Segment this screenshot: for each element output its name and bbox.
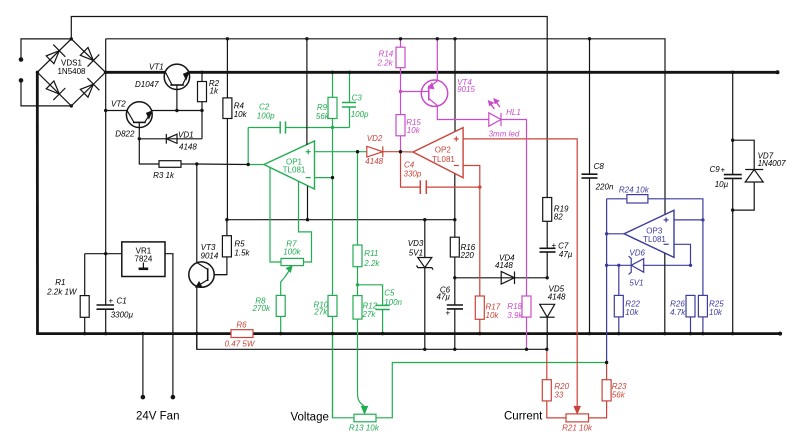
wire OP2 +input to current pot (463, 139, 577, 408)
capacitor C9 (724, 72, 742, 333)
resistor R4 (223, 39, 232, 220)
resistor R8 (276, 278, 285, 334)
wire R9 R10 column (332, 128, 334, 296)
svg-text:100p: 100p (351, 110, 369, 119)
svg-text:D1047: D1047 (135, 80, 159, 89)
wire R12 to R13 wiper (358, 394, 365, 408)
svg-text:10k: 10k (625, 308, 639, 317)
wire OP2 -input (463, 166, 480, 188)
svg-text:56k: 56k (612, 391, 626, 400)
svg-text:33: 33 (554, 391, 563, 400)
svg-text:3.9k: 3.9k (507, 311, 523, 320)
svg-text:0.47 5W: 0.47 5W (225, 340, 256, 349)
svg-text:10k: 10k (234, 110, 248, 119)
svg-text:R21 10k: R21 10k (562, 424, 593, 433)
wire AC input 1 (21, 39, 71, 60)
resistor R18 (522, 296, 531, 349)
wire OP1 -input (315, 177, 333, 179)
terminal AC1 (19, 57, 24, 62)
wire VT2 collector (106, 110, 127, 112)
svg-text:4148: 4148 (365, 157, 383, 166)
wire AC input 2 (21, 80, 71, 106)
node dots green (331, 126, 359, 287)
regulator VR1 (85, 242, 173, 397)
svg-text:C2: C2 (259, 103, 270, 112)
svg-text:56k: 56k (316, 112, 330, 121)
capacitor C7 (540, 248, 556, 277)
node dots red (478, 185, 481, 188)
VDS1 diode lower-left (46, 81, 65, 100)
wire OP1 feedback row (248, 127, 349, 129)
terminal fan right (171, 395, 176, 400)
wire OP1 feedback riser (247, 128, 249, 165)
svg-text:4148: 4148 (179, 143, 197, 152)
svg-text:C4: C4 (404, 161, 415, 170)
diode VD7 (733, 140, 764, 210)
wire fan left (142, 334, 144, 398)
svg-text:R11: R11 (364, 249, 378, 258)
svg-text:R5: R5 (234, 240, 245, 249)
resistor R16 (450, 220, 459, 278)
svg-text:TL081: TL081 (432, 155, 455, 164)
svg-text:C5: C5 (384, 289, 395, 298)
diode VD1 (139, 134, 202, 144)
wire R2 to VD1 corner (201, 111, 203, 139)
svg-text:TL081: TL081 (283, 166, 306, 175)
wire thick output rail left part (106, 71, 166, 74)
wire R3 to OP1 output (197, 163, 248, 166)
resistor R15 (396, 92, 405, 152)
wire thick bottom rail right of R6 (253, 332, 780, 335)
label R14 (377, 50, 524, 320)
svg-text:330p: 330p (404, 170, 422, 179)
wire OP1 V+ pin (306, 39, 308, 145)
svg-text:1k: 1k (210, 87, 219, 96)
svg-text:Voltage: Voltage (291, 412, 329, 424)
transistor VT3 (189, 262, 227, 287)
svg-text:3mm led: 3mm led (489, 130, 520, 139)
svg-text:5V1: 5V1 (629, 279, 643, 288)
resistor R26 (686, 295, 695, 333)
svg-text:R14: R14 (379, 50, 394, 59)
svg-text:4148: 4148 (548, 293, 566, 302)
resistor R10 (328, 295, 337, 417)
wire OP3 V- pin (664, 253, 666, 333)
svg-text:R13 10k: R13 10k (349, 424, 380, 433)
wire OP3 output column (607, 233, 625, 235)
wire VT4 collector to LED (437, 106, 489, 120)
VDS1 diode upper-right (80, 48, 99, 67)
svg-text:VD6: VD6 (629, 249, 645, 258)
capacitor C1 (97, 305, 115, 309)
wire VT3 collector column (196, 164, 198, 263)
wire OP3 output column vertical (606, 199, 608, 363)
zener VD3 (417, 220, 434, 350)
wire VT2 base to R3 (139, 139, 159, 164)
diode VD2 (367, 146, 401, 157)
svg-text:R3 1k: R3 1k (153, 171, 175, 180)
resistor R12 (353, 296, 362, 394)
resistor R20 (542, 349, 566, 418)
svg-text:+: + (721, 166, 726, 175)
svg-text:1N4007: 1N4007 (758, 159, 787, 168)
wire thick output rail right part (188, 71, 777, 74)
wire second rail raw + (106, 39, 665, 215)
node dot magenta (399, 90, 402, 93)
wire negative thick left rail (36, 72, 39, 333)
svg-text:10k: 10k (407, 126, 421, 135)
resistor R17 (475, 187, 484, 334)
op-amp OP2 (413, 128, 463, 178)
svg-text:+: + (446, 309, 451, 318)
svg-text:100n: 100n (384, 298, 402, 307)
label R24 (619, 186, 724, 318)
svg-text:47µ: 47µ (559, 250, 573, 259)
capacitor C5 (358, 285, 390, 334)
svg-text:47µ: 47µ (437, 293, 451, 302)
svg-text:2.2k: 2.2k (377, 59, 394, 68)
resistor R9 (328, 72, 337, 127)
svg-text:C8: C8 (594, 162, 605, 171)
node dots blue (605, 218, 705, 267)
potentiometer R21 (566, 401, 607, 422)
wire OP2 V- pin (454, 173, 456, 219)
capacitor C3 (342, 72, 356, 127)
svg-text:R6: R6 (236, 321, 247, 330)
svg-text:VT1: VT1 (149, 63, 164, 72)
svg-text:10k: 10k (486, 311, 500, 320)
svg-text:2.2k: 2.2k (363, 259, 380, 268)
svg-text:R9: R9 (317, 103, 328, 112)
svg-text:OP2: OP2 (435, 146, 452, 155)
svg-text:VD3: VD3 (408, 239, 424, 248)
wire OP2 V+ pin (454, 39, 456, 132)
diode VD4 (455, 272, 547, 285)
svg-text:3300µ: 3300µ (111, 311, 134, 320)
capacitor C4 feedback (401, 152, 480, 194)
resistor R3 (159, 161, 197, 168)
svg-text:10µ: 10µ (715, 180, 729, 189)
bridge rectifier VDS1 diamond (37, 39, 105, 106)
wire OP2 output to node (401, 151, 414, 153)
wire OP1 V- pin (307, 186, 309, 220)
svg-text:C1: C1 (117, 297, 127, 306)
svg-text:10k: 10k (709, 308, 723, 317)
wire OP1 output to node (248, 164, 264, 166)
svg-text:9014: 9014 (201, 251, 219, 260)
svg-text:R18: R18 (507, 302, 522, 311)
capacitor C6 (447, 278, 463, 350)
resistor R11 (353, 152, 362, 296)
svg-text:HL1: HL1 (506, 108, 521, 117)
wire thick bottom rail left of R6 (36, 332, 231, 335)
wire raw dc column x=105.7 (105, 39, 107, 305)
svg-text:C3: C3 (352, 94, 363, 103)
VDS1 diode upper-left (46, 45, 65, 64)
resistor R22 (614, 265, 623, 333)
transistor VT1 (164, 64, 189, 110)
node dots black (36, 37, 782, 364)
label VD2 (225, 134, 627, 433)
svg-text:24V Fan: 24V Fan (136, 411, 179, 423)
svg-text:82: 82 (554, 213, 563, 222)
svg-text:R1: R1 (55, 278, 65, 287)
svg-text:4148: 4148 (495, 261, 513, 270)
svg-text:+: + (552, 241, 557, 250)
resistor R19 (543, 198, 552, 249)
wire top loop from bridge top vertex to R19 column (71, 17, 547, 198)
op-amp OP3 (624, 210, 674, 257)
label C2 (252, 94, 403, 433)
zener VD6 (607, 256, 691, 274)
svg-text:VD2: VD2 (367, 134, 383, 143)
wire OP3 -input (674, 244, 691, 265)
trimmer R7 offset network (270, 168, 312, 278)
transistor VT2 (126, 102, 152, 139)
svg-text:2.2k 1W: 2.2k 1W (46, 288, 78, 297)
svg-text:D822: D822 (115, 130, 135, 139)
svg-text:27k: 27k (313, 308, 328, 317)
zener VD5 (540, 304, 555, 349)
svg-text:100p: 100p (257, 112, 275, 121)
wire OP3 +input (674, 219, 703, 221)
wire VT3 emitter column (196, 287, 198, 349)
svg-text:220n: 220n (595, 183, 614, 192)
resistor R1 (80, 254, 89, 334)
svg-text:1N5408: 1N5408 (57, 67, 86, 76)
svg-text:VT2: VT2 (111, 100, 126, 109)
resistor R6 (231, 330, 253, 338)
capacitor C8 (582, 39, 598, 334)
wire VT1 base row (152, 110, 203, 112)
svg-text:C9: C9 (710, 165, 721, 174)
svg-text:27k: 27k (362, 310, 377, 319)
resistor R25 (698, 220, 707, 334)
svg-text:7824: 7824 (135, 255, 153, 264)
svg-text:TL081: TL081 (643, 235, 666, 244)
svg-text:4.7k: 4.7k (670, 308, 686, 317)
VDS1 diode lower-right (80, 78, 99, 97)
resistor R5 (214, 220, 231, 275)
transistor VT4 (401, 80, 448, 106)
svg-text:270k: 270k (252, 304, 271, 313)
resistor R24 feedback (607, 195, 703, 220)
svg-text:220: 220 (460, 251, 475, 260)
svg-text:R24 10k: R24 10k (619, 186, 650, 195)
svg-text:1.5k: 1.5k (234, 249, 250, 258)
capacitor C2 (280, 121, 285, 133)
resistor R23 (602, 363, 611, 401)
svg-text:VD1: VD1 (178, 131, 194, 140)
resistor R2 (198, 72, 207, 110)
LED HL1 (489, 99, 527, 296)
svg-text:100k: 100k (283, 248, 301, 257)
wire OP1 +input (315, 151, 367, 153)
svg-text:+: + (109, 297, 114, 306)
terminal fan left (141, 395, 146, 400)
svg-text:5V1: 5V1 (409, 249, 423, 258)
wire V- bus y=219.7 (227, 219, 455, 221)
svg-text:9015: 9015 (457, 85, 475, 94)
potentiometer R13 (333, 334, 607, 422)
wire VT4 emitter (436, 39, 438, 81)
op-amp OP1 (264, 141, 315, 189)
resistor R14 (396, 39, 405, 92)
terminal AC2 (19, 78, 24, 83)
svg-text:Current: Current (504, 411, 543, 423)
wire thin sense bus y=349.3 (197, 334, 547, 350)
